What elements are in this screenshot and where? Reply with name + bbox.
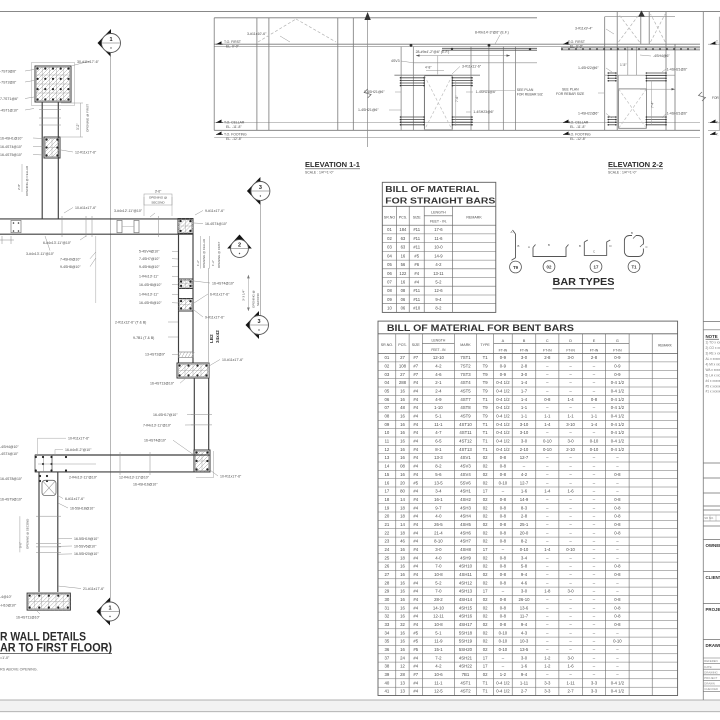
- svg-text:20-0: 20-0: [520, 530, 529, 535]
- svg-text:03: 03: [387, 245, 392, 250]
- svg-text:FT-IN: FT-IN: [520, 348, 529, 352]
- svg-text:4-2: 4-2: [435, 364, 442, 369]
- svg-text:FEET - IN: FEET - IN: [431, 348, 446, 352]
- svg-text:13: 13: [385, 455, 390, 460]
- svg-text:21: 21: [385, 522, 390, 527]
- svg-text:7ST2: 7ST2: [460, 364, 471, 369]
- svg-text:9-7B1 (T & B): 9-7B1 (T & B): [133, 336, 154, 340]
- svg-text:6-5: 6-5: [435, 439, 442, 444]
- svg-text:80: 80: [400, 489, 405, 494]
- bar type bubble T1: [628, 261, 640, 273]
- svg-text:4SH6: 4SH6: [460, 530, 471, 535]
- svg-text:T1: T1: [483, 430, 489, 435]
- svg-text:16: 16: [400, 414, 405, 419]
- svg-text:1-#4x13'-11": 1-#4x13'-11": [139, 275, 159, 279]
- svg-text:1-4: 1-4: [591, 422, 598, 427]
- svg-text:0-9: 0-9: [614, 364, 621, 369]
- svg-text:#4: #4: [413, 680, 418, 685]
- wall B (horizontal): [0, 218, 193, 220]
- svg-text:12-#11x17'-6": 12-#11x17'-6": [75, 151, 97, 155]
- svg-text:3) RE x xxxxx xxxx: 3) RE x xxxxx xxxx: [706, 352, 720, 356]
- svg-text:13: 13: [400, 689, 405, 694]
- svg-text:3-0: 3-0: [435, 547, 442, 552]
- svg-text:02: 02: [483, 630, 488, 635]
- svg-text:4SH3: 4SH3: [460, 505, 471, 510]
- svg-text:#4: #4: [413, 430, 418, 435]
- svg-text:B: B: [523, 339, 526, 343]
- svg-text:13-5: 13-5: [520, 647, 529, 652]
- svg-text:#5 x xxxxx xxxx: #5 x xxxxx xxxx: [706, 385, 720, 389]
- svg-text:0-10: 0-10: [499, 647, 508, 652]
- svg-text:#4: #4: [413, 597, 418, 602]
- svg-text:16-5SH19@10": 16-5SH19@10": [74, 537, 99, 541]
- svg-text:7-0: 7-0: [435, 564, 442, 569]
- svg-text:0-10: 0-10: [543, 447, 552, 452]
- svg-text:13-3: 13-3: [434, 455, 443, 460]
- svg-text:0-8: 0-8: [500, 472, 507, 477]
- svg-text:0-4 1/2: 0-4 1/2: [611, 439, 625, 444]
- svg-text:0-8: 0-8: [500, 522, 507, 527]
- svg-text:#5: #5: [414, 253, 419, 258]
- elevation global T.O. FIRST lines: [214, 43, 700, 45]
- svg-text:16-4ST5@10": 16-4ST5@10": [0, 153, 23, 157]
- svg-text:13-5: 13-5: [434, 480, 443, 485]
- svg-text:2-7: 2-7: [521, 689, 528, 694]
- svg-text:T.O. FIRST: T.O. FIRST: [568, 40, 585, 44]
- svg-text:B: B: [518, 244, 520, 248]
- svg-text:T1: T1: [483, 680, 489, 685]
- section line 3-3: [260, 200, 262, 316]
- svg-text:16: 16: [400, 647, 405, 652]
- svg-text:0-8: 0-8: [500, 530, 507, 535]
- bar type bubble T9: [510, 261, 522, 273]
- svg-text:0-10: 0-10: [499, 480, 508, 485]
- svg-text:1-4SH21@6": 1-4SH21@6": [667, 112, 688, 116]
- svg-text:1-7: 1-7: [521, 389, 528, 394]
- svg-text:23: 23: [385, 539, 390, 544]
- svg-text:02: 02: [483, 639, 488, 644]
- svg-text:2-8: 2-8: [591, 355, 598, 360]
- elevation 1-1 door height dim: [455, 80, 457, 126]
- svg-text:A: A: [502, 339, 505, 343]
- svg-text:4-6: 4-6: [521, 580, 528, 585]
- svg-text:SIZE: SIZE: [412, 343, 421, 347]
- svg-text:0-9: 0-9: [500, 355, 507, 360]
- svg-text:SECOND: SECOND: [256, 292, 260, 306]
- elevation 1-1 right portion verticals: [400, 47, 402, 131]
- svg-text:3-0: 3-0: [567, 655, 574, 660]
- svg-text:12: 12: [400, 664, 405, 669]
- svg-text:06: 06: [401, 306, 406, 311]
- svg-text:4-6: 4-6: [435, 372, 442, 377]
- leader 30-#11x17'-6": [71, 61, 90, 66]
- svg-text:#4: #4: [413, 572, 418, 577]
- svg-text:9-4SH8@10": 9-4SH8@10": [60, 265, 81, 269]
- svg-text:0-8: 0-8: [614, 605, 621, 610]
- svg-text:05: 05: [385, 389, 390, 394]
- svg-text:03: 03: [385, 372, 390, 377]
- svg-text:30-#11x17'-6": 30-#11x17'-6": [77, 60, 100, 64]
- svg-text:02: 02: [483, 572, 488, 577]
- svg-text:10-#11x17'-6": 10-#11x17'-6": [220, 474, 242, 478]
- svg-text:13-6: 13-6: [520, 605, 529, 610]
- svg-text:1-4: 1-4: [544, 489, 551, 494]
- svg-text:3'-2": 3'-2": [76, 123, 80, 130]
- svg-text:0-4 1/2: 0-4 1/2: [496, 389, 510, 394]
- svg-text:31: 31: [385, 605, 390, 610]
- svg-text:3-3: 3-3: [544, 680, 551, 685]
- svg-text:10-#11x17'-6": 10-#11x17'-6": [75, 206, 97, 210]
- svg-text:1-1: 1-1: [544, 414, 551, 419]
- svg-text:4ST2: 4ST2: [460, 689, 471, 694]
- svg-text:1'-5": 1'-5": [620, 63, 627, 67]
- svg-text:#4: #4: [413, 389, 418, 394]
- svg-text:0-10: 0-10: [499, 630, 508, 635]
- svg-text:16-4SH16@10": 16-4SH16@10": [133, 483, 158, 487]
- svg-text:4ST11: 4ST11: [459, 430, 472, 435]
- svg-text:#4: #4: [413, 564, 418, 569]
- svg-text:#4: #4: [413, 539, 418, 544]
- svg-text:2-8: 2-8: [521, 514, 528, 519]
- svg-text:1-2: 1-2: [544, 664, 551, 669]
- svg-text:1-6: 1-6: [521, 489, 528, 494]
- bent bars table rows: [378, 361, 678, 363]
- svg-text:T9: T9: [483, 389, 489, 394]
- svg-text:25: 25: [385, 555, 390, 560]
- svg-text:4SH7: 4SH7: [460, 539, 471, 544]
- svg-text:12: 12: [385, 447, 390, 452]
- svg-text:46: 46: [400, 539, 405, 544]
- svg-text:3-0: 3-0: [521, 655, 528, 660]
- svg-text:DATE:: DATE:: [704, 665, 712, 669]
- svg-text:3-10: 3-10: [520, 422, 529, 427]
- svg-text:10: 10: [385, 430, 390, 435]
- svg-text:9-4SH6@10": 9-4SH6@10": [139, 265, 160, 269]
- svg-text:0-8: 0-8: [614, 614, 621, 619]
- svg-text:26-5: 26-5: [434, 522, 443, 527]
- svg-text:1-1: 1-1: [521, 405, 528, 410]
- svg-text:02: 02: [385, 364, 390, 369]
- svg-text:OWNER: OWNER: [706, 543, 720, 548]
- svg-text:5-8: 5-8: [521, 564, 528, 569]
- svg-text:#4: #4: [413, 464, 418, 469]
- svg-text:T1: T1: [483, 422, 489, 427]
- svg-text:E: E: [593, 339, 596, 343]
- svg-text:1-4SH21@6": 1-4SH21@6": [358, 108, 379, 112]
- svg-text:10-#11x17'-6": 10-#11x17'-6": [222, 358, 244, 362]
- svg-text:ELEVATION 2-2: ELEVATION 2-2: [608, 160, 663, 169]
- svg-text:SCALE : 1/4"=1'-0": SCALE : 1/4"=1'-0": [305, 171, 334, 175]
- svg-text:18: 18: [400, 530, 405, 535]
- svg-text:36: 36: [385, 647, 390, 652]
- svg-text:-4ST4@10": -4ST4@10": [0, 452, 19, 456]
- svg-text:T9: T9: [483, 380, 489, 385]
- svg-text:4-0: 4-0: [435, 555, 442, 560]
- svg-text:48: 48: [400, 405, 405, 410]
- svg-text:#5: #5: [413, 480, 418, 485]
- svg-text:1-11: 1-11: [520, 680, 529, 685]
- svg-text:#4: #4: [414, 280, 419, 285]
- svg-text:02: 02: [483, 530, 488, 535]
- svg-text:-7ST2@6": -7ST2@6": [0, 81, 17, 85]
- break symbol on match line: [364, 89, 371, 98]
- svg-text:OPENING @ CELLAR: OPENING @ CELLAR: [202, 239, 206, 268]
- svg-text:REMARK: REMARK: [658, 344, 673, 348]
- svg-text:5SH19: 5SH19: [459, 639, 473, 644]
- svg-text:12-7: 12-7: [520, 455, 529, 460]
- svg-text:02: 02: [483, 497, 488, 502]
- svg-text:FOR REBAR SIZ: FOR REBAR SIZ: [517, 92, 543, 96]
- bar type bubble 02: [543, 261, 555, 273]
- svg-text:02: 02: [387, 236, 392, 241]
- svg-text:PROJECT: PROJECT: [704, 676, 717, 680]
- svg-text:4SH5: 4SH5: [460, 522, 471, 527]
- svg-text:3-0: 3-0: [521, 439, 528, 444]
- wall B opening jambs: [117, 220, 122, 232]
- opening @ second dim (right of wall C): [247, 275, 249, 311]
- svg-text:0-8: 0-8: [500, 622, 507, 627]
- svg-text:FEET - IN.: FEET - IN.: [430, 220, 447, 224]
- svg-text:16-4ST4@10": 16-4ST4@10": [212, 282, 235, 286]
- svg-text:10-3: 10-3: [520, 639, 529, 644]
- svg-text:20: 20: [400, 480, 405, 485]
- svg-text:02: 02: [483, 564, 488, 569]
- elevation 2-2 dim arrow line: [640, 88, 675, 90]
- svg-text:16-4ST4@10": 16-4ST4@10": [144, 439, 167, 443]
- svg-text:#10: #10: [413, 306, 421, 311]
- svg-text:28-2: 28-2: [434, 597, 443, 602]
- svg-text:01: 01: [387, 227, 392, 232]
- elevation 1-1 rebar bars below T.O. FIRST: [442, 47, 537, 49]
- svg-text:02: 02: [483, 555, 488, 560]
- svg-text:4-0: 4-0: [435, 514, 442, 519]
- elevation 1-1 door opening: [424, 76, 452, 130]
- svg-text:4SH12: 4SH12: [459, 580, 473, 585]
- svg-text:T9: T9: [483, 372, 489, 377]
- svg-text:18: 18: [400, 505, 405, 510]
- svg-text:02: 02: [483, 464, 488, 469]
- svg-text:4ST1: 4ST1: [460, 680, 471, 685]
- svg-text:EL. 0'-0": EL. 0'-0": [226, 45, 240, 49]
- svg-text:#4: #4: [413, 439, 418, 444]
- wall B left dim ticks: [1, 236, 3, 244]
- svg-text:5-2: 5-2: [435, 580, 442, 585]
- svg-text:T.O. CELLAR: T.O. CELLAR: [568, 121, 589, 125]
- svg-text:20: 20: [385, 514, 390, 519]
- svg-text:BILL OF MATERIAL: BILL OF MATERIAL: [385, 184, 479, 194]
- svg-text:4SH22: 4SH22: [459, 664, 473, 669]
- svg-text:2-8: 2-8: [544, 355, 551, 360]
- svg-text:3-#4x12'-11"@10": 3-#4x12'-11"@10": [114, 209, 143, 213]
- svg-text:14-10: 14-10: [433, 605, 445, 610]
- svg-text:16: 16: [400, 455, 405, 460]
- svg-text:10-8: 10-8: [434, 622, 443, 627]
- svg-text:16: 16: [400, 605, 405, 610]
- svg-text:18: 18: [400, 514, 405, 519]
- svg-text:7-7ST1@6": 7-7ST1@6": [0, 97, 19, 101]
- svg-text:5-6: 5-6: [435, 472, 442, 477]
- svg-text:27: 27: [400, 372, 405, 377]
- svg-text:ELEVATION 1-1: ELEVATION 1-1: [305, 160, 360, 169]
- svg-text:1-6: 1-6: [521, 664, 528, 669]
- svg-text:B: B: [631, 231, 633, 235]
- svg-text:8-10: 8-10: [434, 539, 443, 544]
- svg-text:0-8: 0-8: [500, 505, 507, 510]
- wall A (vertical, left): [41, 102, 43, 219]
- svg-text:37: 37: [385, 655, 390, 660]
- svg-text:#4: #4: [413, 522, 418, 527]
- svg-text:FOR REBAR SIZE: FOR REBAR SIZE: [556, 92, 585, 96]
- opening @ second dim (left of wall E): [19, 516, 21, 552]
- svg-text:4SV3: 4SV3: [391, 59, 400, 63]
- svg-text:30: 30: [385, 597, 390, 602]
- svg-text:7-4SH7@10": 7-4SH7@10": [139, 257, 160, 261]
- svg-text:21-#11x17'-6": 21-#11x17'-6": [83, 587, 105, 591]
- svg-text:5SH18: 5SH18: [459, 630, 473, 635]
- svg-text:9-#11x17'-6": 9-#11x17'-6": [205, 316, 225, 320]
- svg-text:FT-IN: FT-IN: [613, 348, 622, 352]
- svg-text:SR.NO: SR.NO: [384, 216, 396, 220]
- svg-text:14-9: 14-9: [520, 497, 529, 502]
- svg-text:4ST10: 4ST10: [459, 422, 472, 427]
- elevation 1-1 level flags+labels: [216, 41, 222, 45]
- svg-text:16: 16: [400, 430, 405, 435]
- svg-text:C: C: [646, 245, 648, 249]
- svg-text:5SV6: 5SV6: [460, 480, 471, 485]
- svg-text:3-3: 3-3: [591, 689, 598, 694]
- elevation 2-2 door opening: [619, 89, 647, 128]
- wall D center line: [38, 463, 96, 465]
- straight bars table header: [382, 205, 496, 207]
- svg-text:0-10: 0-10: [590, 447, 599, 452]
- svg-text:6-#11x17'-6": 6-#11x17'-6": [210, 293, 230, 297]
- svg-text:08: 08: [387, 288, 392, 293]
- svg-text:4ST13: 4ST13: [459, 447, 472, 452]
- svg-text:#11: #11: [413, 236, 420, 241]
- svg-text:07: 07: [387, 280, 392, 285]
- svg-text:#1 x xxxxx xxxx: #1 x xxxxx xxxx: [706, 390, 720, 394]
- svg-text:11-9: 11-9: [434, 639, 443, 644]
- elevation 2-2 header line: [605, 74, 675, 76]
- elevation 2-2 verticals: [604, 17, 606, 131]
- svg-text:10-6: 10-6: [434, 672, 443, 677]
- svg-text:3-0: 3-0: [567, 589, 574, 594]
- svg-text:11: 11: [385, 439, 390, 444]
- svg-text:1-10: 1-10: [434, 405, 443, 410]
- svg-text:12-#4x13'-11"@10": 12-#4x13'-11"@10": [119, 476, 150, 480]
- elevation global cellar/footing lines: [214, 122, 700, 124]
- svg-text:0-4 1/2: 0-4 1/2: [496, 430, 510, 435]
- svg-text:16: 16: [400, 639, 405, 644]
- svg-text:3-0: 3-0: [521, 589, 528, 594]
- svg-text:0-4 1/2: 0-4 1/2: [611, 397, 625, 402]
- svg-text:04: 04: [385, 380, 390, 385]
- svg-text:15-1: 15-1: [434, 647, 443, 652]
- svg-text:2-4: 2-4: [435, 389, 442, 394]
- svg-text:#7: #7: [413, 355, 418, 360]
- svg-text:06: 06: [401, 297, 406, 302]
- svg-text:1-8: 1-8: [544, 589, 551, 594]
- svg-text:16: 16: [400, 614, 405, 619]
- svg-text:4ST7: 4ST7: [460, 397, 471, 402]
- svg-text:#4: #4: [413, 547, 418, 552]
- svg-text:34x42: 34x42: [215, 330, 220, 343]
- table: BILL OF MATERIAL FOR STRAIGHT BARS: [382, 182, 496, 312]
- svg-text:16-4SH17@10": 16-4SH17@10": [153, 413, 178, 417]
- bar type symbol 17: [584, 240, 610, 255]
- svg-text:0-4 1/2: 0-4 1/2: [611, 680, 625, 685]
- svg-text:#4: #4: [414, 271, 419, 276]
- svg-text:1-4: 1-4: [521, 380, 528, 385]
- title block PROJECT section: [703, 603, 720, 605]
- svg-text:10-8: 10-8: [434, 572, 443, 577]
- svg-text:#4: #4: [413, 605, 418, 610]
- hatched band 13-4ST2: [179, 352, 194, 358]
- svg-text:11-6: 11-6: [434, 236, 443, 241]
- svg-text:1: 1: [108, 606, 111, 612]
- svg-text:SECOND: SECOND: [151, 201, 165, 205]
- svg-text:RS ABOVE OPENING.: RS ABOVE OPENING.: [0, 668, 38, 672]
- svg-text:#4: #4: [413, 514, 418, 519]
- svg-text:#4: #4: [413, 422, 418, 427]
- svg-text:1) TO x xxxxx xxxx: 1) TO x xxxxx xxxx: [706, 341, 720, 345]
- svg-text:3-#11x10'-6": 3-#11x10'-6": [247, 32, 267, 36]
- elevation 2-2 tick groups: [608, 72, 616, 74]
- svg-text:4SH8: 4SH8: [460, 547, 471, 552]
- svg-text:06: 06: [387, 271, 392, 276]
- svg-text:2-8: 2-8: [521, 364, 528, 369]
- svg-text:16: 16: [385, 480, 390, 485]
- sheet bottom border lines: [0, 700, 720, 712]
- svg-text:4SV4: 4SV4: [460, 472, 471, 477]
- svg-text:#11: #11: [413, 288, 420, 293]
- svg-text:0-8: 0-8: [500, 514, 507, 519]
- svg-text:2: 2: [238, 243, 241, 249]
- svg-text:3-#11x11'-6": 3-#11x11'-6": [462, 65, 482, 69]
- wall E (vertical, bottom): [38, 472, 40, 592]
- svg-text:2-10: 2-10: [520, 447, 529, 452]
- svg-text:24: 24: [400, 655, 405, 660]
- svg-text:1-1: 1-1: [567, 414, 574, 419]
- svg-text:0-8: 0-8: [500, 597, 507, 602]
- svg-text:-7ST3@6": -7ST3@6": [0, 70, 17, 74]
- svg-text:OPENING @ SECOND: OPENING @ SECOND: [26, 519, 30, 549]
- svg-text:2'-8": 2'-8": [17, 184, 21, 190]
- svg-text:#4: #4: [413, 447, 418, 452]
- svg-text:0-8: 0-8: [614, 564, 621, 569]
- svg-text:14: 14: [400, 522, 405, 527]
- svg-text:EL. -11'-8": EL. -11'-8": [570, 125, 586, 129]
- svg-text:2-#4x13'-11"@10": 2-#4x13'-11"@10": [69, 476, 98, 480]
- svg-text:1-2: 1-2: [544, 655, 551, 660]
- svg-text:0-8: 0-8: [500, 572, 507, 577]
- svg-text:9-4: 9-4: [521, 622, 528, 627]
- svg-text:PCS.: PCS.: [399, 216, 407, 220]
- svg-text:0-8: 0-8: [614, 497, 621, 502]
- svg-text:27: 27: [385, 572, 390, 577]
- svg-text:FT-IN: FT-IN: [566, 348, 575, 352]
- elevation 2-2 dashed braces: [619, 14, 640, 42]
- svg-text:02: 02: [483, 647, 488, 652]
- corner column wall B/C: [178, 219, 193, 234]
- svg-text:0-4 1/2: 0-4 1/2: [496, 422, 510, 427]
- svg-text:4SV1: 4SV1: [460, 455, 471, 460]
- svg-text:02: 02: [483, 622, 488, 627]
- svg-text:16: 16: [401, 253, 406, 258]
- svg-text:0-10: 0-10: [590, 439, 599, 444]
- bar type symbol 02: [533, 245, 569, 257]
- label box 10-#11 right of C6: [213, 451, 215, 478]
